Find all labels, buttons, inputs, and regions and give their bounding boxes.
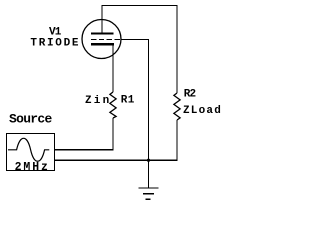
svg-text:2MHz: 2MHz — [15, 161, 50, 174]
svg-text:Source: Source — [9, 111, 53, 126]
svg-text:ZLoad: ZLoad — [183, 105, 222, 117]
svg-text:R1: R1 — [121, 95, 135, 107]
svg-text:R2: R2 — [184, 88, 196, 100]
svg-text:V1: V1 — [49, 26, 62, 38]
svg-text:Zin: Zin — [85, 95, 111, 107]
svg-text:TRIODE: TRIODE — [30, 38, 80, 50]
